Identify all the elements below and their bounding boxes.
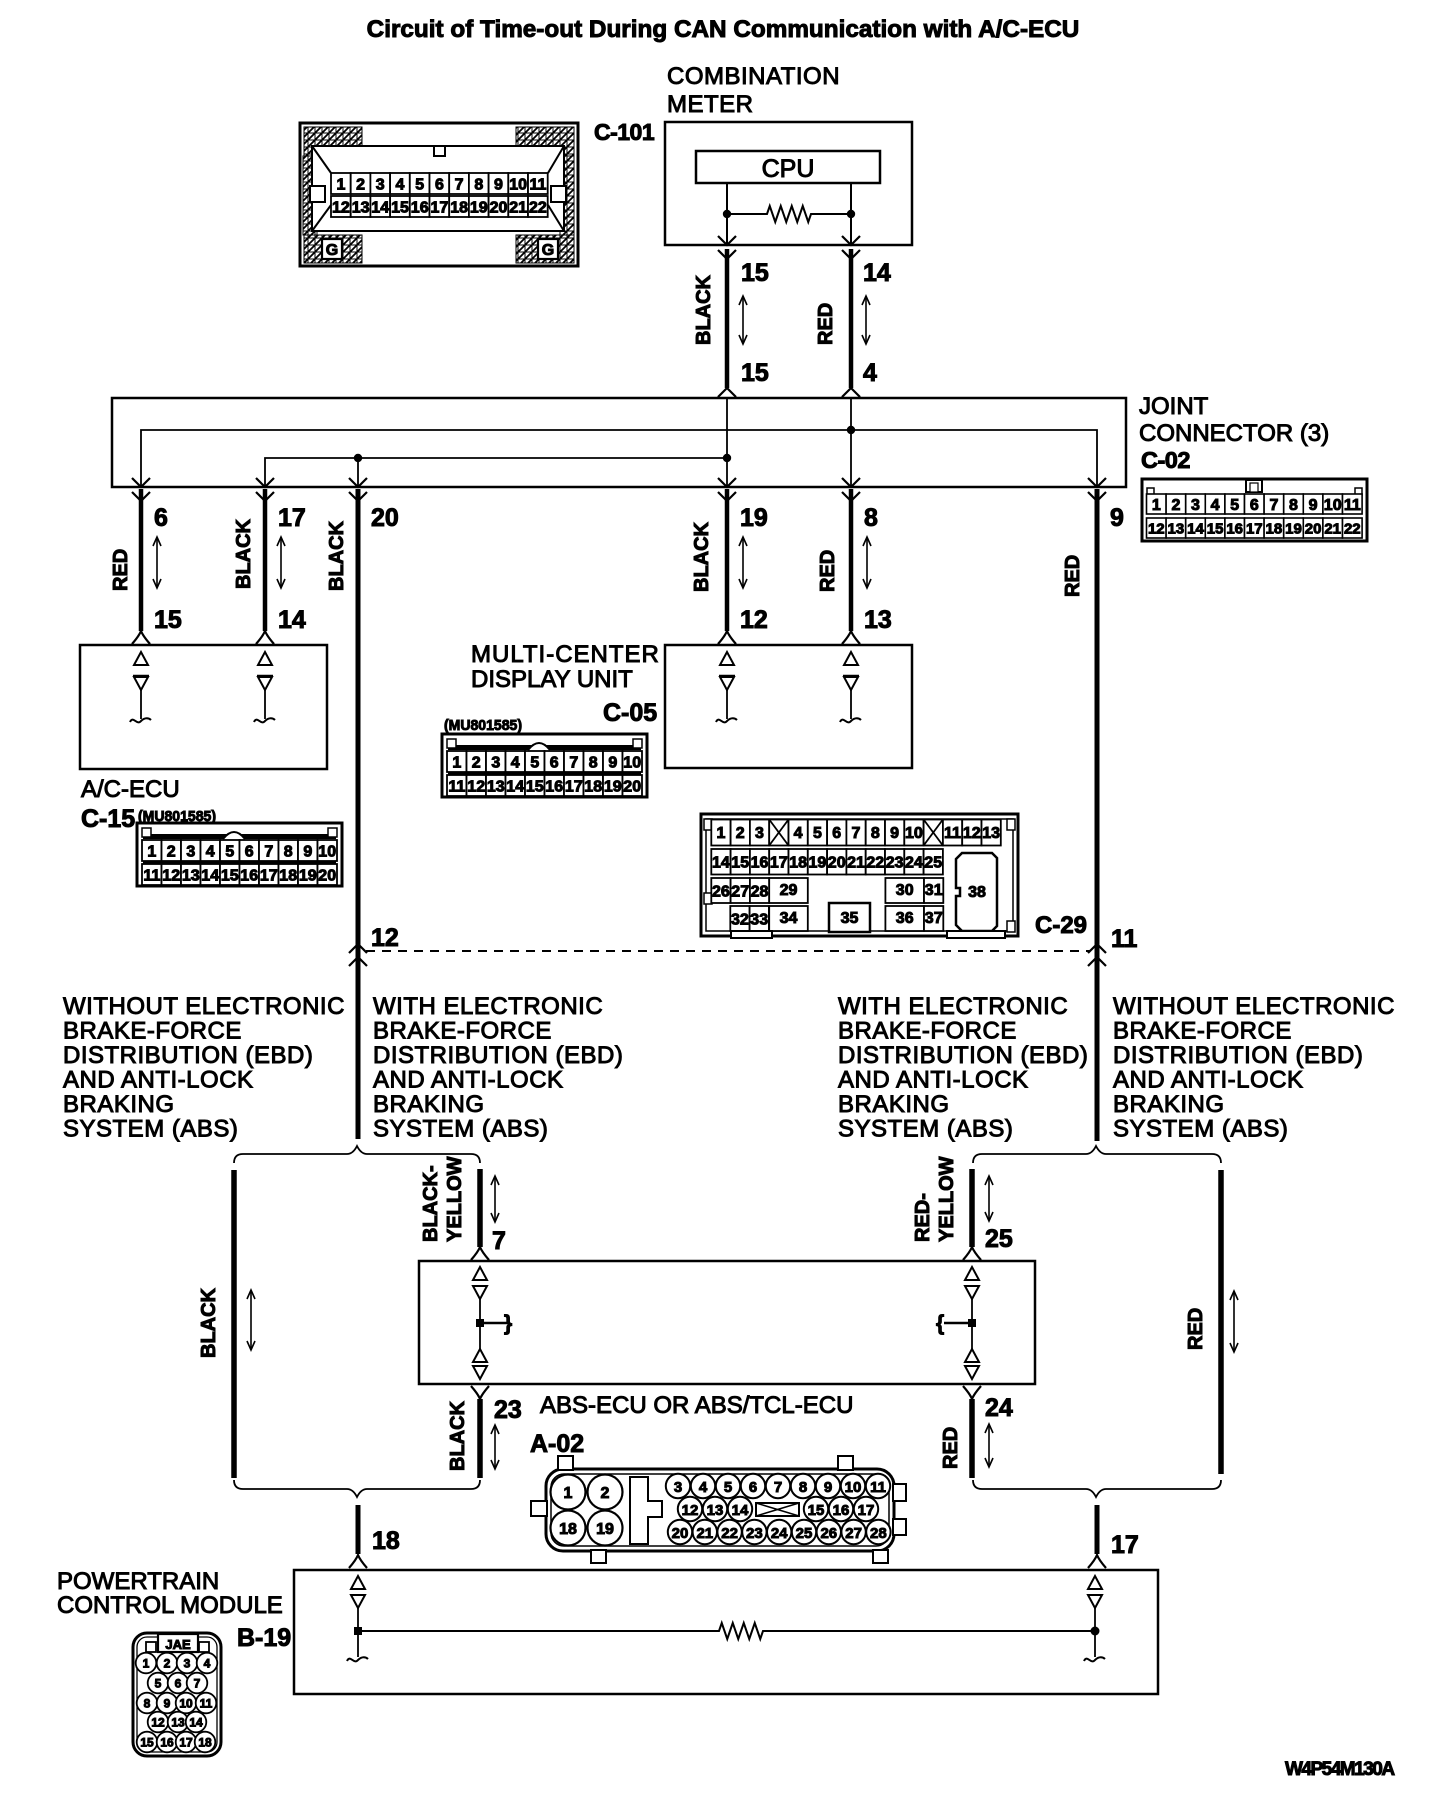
svg-text:14: 14 bbox=[732, 1502, 749, 1519]
PCM internal terminal pin 18 bbox=[347, 1576, 368, 1661]
svg-text:C-101: C-101 bbox=[594, 119, 655, 145]
svg-text:28: 28 bbox=[870, 1525, 887, 1542]
svg-text:14: 14 bbox=[1187, 520, 1204, 537]
direction arrow wire 17 bbox=[280, 539, 282, 586]
svg-text:17: 17 bbox=[179, 1736, 193, 1750]
svg-text:6: 6 bbox=[245, 843, 254, 860]
svg-text:1: 1 bbox=[564, 1485, 573, 1502]
terminating resistor R1 in combination meter bbox=[727, 206, 851, 222]
svg-text:24: 24 bbox=[905, 855, 923, 872]
PCM internal terminal pin 17 bbox=[1084, 1576, 1105, 1661]
svg-text:W4P54M130A: W4P54M130A bbox=[1285, 1759, 1395, 1780]
wire RED branch without EBD right bbox=[1218, 1170, 1224, 1474]
svg-text:2: 2 bbox=[356, 176, 365, 193]
svg-text:8: 8 bbox=[871, 825, 880, 842]
C-101 ground terminal G right bbox=[538, 239, 558, 259]
svg-text:9: 9 bbox=[303, 843, 312, 860]
variant note block 1 bbox=[63, 993, 345, 1143]
svg-text:12: 12 bbox=[682, 1502, 699, 1519]
variant note block 4 bbox=[1113, 993, 1395, 1143]
svg-text:10: 10 bbox=[318, 843, 336, 860]
svg-text:35: 35 bbox=[841, 910, 859, 927]
svg-text:12: 12 bbox=[151, 1716, 165, 1730]
svg-text:16: 16 bbox=[240, 867, 258, 884]
direction arrow wire 6 bbox=[156, 539, 158, 586]
svg-text:BRAKING: BRAKING bbox=[373, 1091, 485, 1118]
svg-text:25: 25 bbox=[985, 1225, 1013, 1253]
direction arrow wire 25 bbox=[988, 1178, 990, 1219]
svg-text:A-02: A-02 bbox=[530, 1430, 584, 1458]
svg-text:RED: RED bbox=[817, 550, 839, 592]
svg-text:33: 33 bbox=[750, 911, 768, 928]
svg-text:BLACK: BLACK bbox=[326, 520, 348, 591]
svg-text:14: 14 bbox=[506, 778, 524, 795]
svg-text:C-02: C-02 bbox=[1141, 447, 1190, 473]
svg-text:8: 8 bbox=[1289, 497, 1298, 514]
svg-text:5: 5 bbox=[415, 176, 424, 193]
svg-text:30: 30 bbox=[896, 882, 914, 899]
svg-text:10: 10 bbox=[623, 754, 641, 771]
svg-text:7: 7 bbox=[569, 754, 578, 771]
svg-text:BRAKE-FORCE: BRAKE-FORCE bbox=[373, 1018, 552, 1045]
svg-text:11: 11 bbox=[529, 176, 546, 193]
connector crossing at meter pin 14 bbox=[842, 236, 860, 245]
svg-text:9: 9 bbox=[494, 176, 503, 193]
svg-text:23: 23 bbox=[746, 1525, 763, 1542]
C-29 pin row 1 bbox=[711, 820, 730, 846]
svg-text:20: 20 bbox=[1305, 520, 1322, 537]
svg-text:4: 4 bbox=[204, 1657, 211, 1671]
svg-text:15: 15 bbox=[731, 855, 749, 872]
svg-text:13: 13 bbox=[352, 199, 370, 216]
svg-text:DISTRIBUTION (EBD): DISTRIBUTION (EBD) bbox=[838, 1042, 1088, 1069]
svg-text:1: 1 bbox=[1152, 497, 1161, 514]
joint internal bus upper bbox=[141, 430, 1097, 487]
svg-text:20: 20 bbox=[318, 867, 336, 884]
wire RED-YELLOW branch to ABS pin 25 bbox=[969, 1169, 975, 1247]
svg-text:26: 26 bbox=[820, 1525, 837, 1542]
connector crossing joint pin 9 bbox=[1088, 478, 1106, 487]
connector C-02 face view bbox=[1142, 479, 1367, 541]
multi-center display unit box bbox=[665, 645, 912, 768]
svg-text:20: 20 bbox=[490, 199, 508, 216]
svg-text:3: 3 bbox=[1191, 497, 1200, 514]
svg-text:17: 17 bbox=[1246, 520, 1263, 537]
wire end fork ABS pin 25 bbox=[963, 1247, 981, 1260]
svg-text:11: 11 bbox=[1111, 925, 1138, 953]
C-29 pin 38 cavity bbox=[956, 853, 997, 931]
svg-text:25: 25 bbox=[796, 1525, 813, 1542]
svg-text:3: 3 bbox=[674, 1479, 682, 1496]
C-101 pins 12-22 bbox=[331, 196, 351, 217]
svg-text:18: 18 bbox=[450, 199, 468, 216]
svg-text:23: 23 bbox=[886, 855, 904, 872]
connector crossing joint pin 17 bbox=[256, 478, 274, 487]
svg-text:11: 11 bbox=[870, 1479, 886, 1496]
svg-text:3: 3 bbox=[491, 754, 500, 771]
svg-text:JOINT: JOINT bbox=[1139, 393, 1209, 420]
joint internal bus lower bbox=[265, 458, 727, 487]
svg-text:RED: RED bbox=[110, 549, 132, 591]
svg-text:AND ANTI-LOCK: AND ANTI-LOCK bbox=[373, 1067, 564, 1094]
ABS-ECU box bbox=[419, 1261, 1035, 1384]
svg-text:CONNECTOR (3): CONNECTOR (3) bbox=[1139, 420, 1329, 447]
svg-text:38: 38 bbox=[968, 884, 986, 901]
svg-text:B-19: B-19 bbox=[237, 1624, 291, 1652]
svg-text:WITHOUT ELECTRONIC: WITHOUT ELECTRONIC bbox=[63, 993, 345, 1020]
wire end fork at pin 14 bbox=[256, 631, 274, 644]
svg-text:RED: RED bbox=[1062, 555, 1084, 597]
merge brace right to wire 17 bbox=[973, 1480, 1221, 1497]
svg-text:24: 24 bbox=[771, 1525, 788, 1542]
svg-text:6: 6 bbox=[550, 754, 559, 771]
svg-text:BLACK: BLACK bbox=[233, 518, 255, 589]
svg-text:9: 9 bbox=[824, 1479, 832, 1496]
svg-text:BLACK-: BLACK- bbox=[420, 1165, 442, 1242]
svg-text:6: 6 bbox=[832, 825, 841, 842]
svg-text:DISPLAY UNIT: DISPLAY UNIT bbox=[471, 666, 633, 693]
wire BLACK ABS 23 down bbox=[477, 1399, 483, 1478]
svg-text:20: 20 bbox=[828, 855, 846, 872]
connector B-19 face view bbox=[133, 1633, 221, 1756]
svg-text:27: 27 bbox=[731, 883, 749, 900]
svg-text:7: 7 bbox=[1269, 497, 1278, 514]
joint internal through wire 15-19 bbox=[726, 398, 728, 487]
svg-text:SYSTEM (ABS): SYSTEM (ABS) bbox=[373, 1116, 548, 1143]
svg-text:9: 9 bbox=[1110, 504, 1124, 532]
svg-text:10: 10 bbox=[1324, 497, 1342, 514]
svg-text:15: 15 bbox=[741, 359, 769, 387]
svg-text:29: 29 bbox=[780, 882, 798, 899]
joint internal stub wire 20 bbox=[357, 458, 359, 487]
svg-text:BLACK: BLACK bbox=[198, 1287, 220, 1358]
svg-text:2: 2 bbox=[472, 754, 481, 771]
wire RED joint 6 to pin 15 bbox=[139, 489, 144, 631]
svg-text:MULTI-CENTER: MULTI-CENTER bbox=[471, 641, 660, 668]
svg-text:19: 19 bbox=[299, 867, 317, 884]
svg-text:17: 17 bbox=[770, 855, 788, 872]
svg-text:22: 22 bbox=[1344, 520, 1361, 537]
svg-text:6: 6 bbox=[749, 1479, 757, 1496]
svg-text:8: 8 bbox=[864, 504, 878, 532]
svg-text:15: 15 bbox=[808, 1502, 825, 1519]
svg-text:14: 14 bbox=[278, 606, 306, 634]
svg-text:15: 15 bbox=[391, 199, 409, 216]
joint connector C-02 box bbox=[112, 398, 1126, 487]
svg-text:12: 12 bbox=[1148, 520, 1165, 537]
svg-text:2: 2 bbox=[164, 1657, 171, 1671]
svg-text:8: 8 bbox=[144, 1697, 151, 1711]
svg-text:METER: METER bbox=[667, 91, 754, 118]
C-101 pins 1-11 bbox=[331, 173, 351, 194]
svg-text:2: 2 bbox=[601, 1485, 610, 1502]
svg-text:17: 17 bbox=[260, 867, 278, 884]
svg-text:13: 13 bbox=[487, 778, 505, 795]
svg-text:11: 11 bbox=[1344, 497, 1361, 514]
svg-text:13: 13 bbox=[182, 867, 200, 884]
svg-text:12: 12 bbox=[467, 778, 485, 795]
wire BLACK joint 17 to pin 14 bbox=[263, 489, 268, 631]
svg-text:AND ANTI-LOCK: AND ANTI-LOCK bbox=[838, 1067, 1029, 1094]
svg-text:6: 6 bbox=[1250, 497, 1259, 514]
connector C-29 face view bbox=[701, 814, 1018, 938]
svg-text:13: 13 bbox=[1168, 520, 1185, 537]
svg-text:WITH ELECTRONIC: WITH ELECTRONIC bbox=[373, 993, 603, 1020]
svg-text:SYSTEM (ABS): SYSTEM (ABS) bbox=[1113, 1116, 1288, 1143]
combination meter box bbox=[665, 122, 912, 245]
svg-text:16: 16 bbox=[160, 1736, 174, 1750]
direction arrow wire 8 bbox=[866, 539, 868, 586]
svg-text:4: 4 bbox=[396, 176, 405, 193]
direction arrow wire 7 bbox=[494, 1178, 496, 1220]
svg-text:14: 14 bbox=[371, 199, 389, 216]
direction arrow wire 23 bbox=[494, 1427, 496, 1467]
connector crossing joint pin 8 bbox=[842, 478, 860, 487]
svg-text:2: 2 bbox=[736, 825, 745, 842]
svg-text:5: 5 bbox=[225, 843, 234, 860]
connector crossing at joint connector pin 15 bbox=[718, 388, 736, 397]
A-02 small pins row 3 bbox=[668, 1520, 692, 1544]
svg-text:G: G bbox=[542, 242, 554, 259]
svg-text:SYSTEM (ABS): SYSTEM (ABS) bbox=[838, 1116, 1013, 1143]
harness break chevrons wire 12 bbox=[349, 944, 367, 953]
svg-text:3: 3 bbox=[186, 843, 195, 860]
direction arrow wire 14 bbox=[865, 298, 867, 342]
wire BLACK joint 19 to pin 12 bbox=[725, 489, 730, 631]
connector C-05 face view bbox=[442, 734, 647, 797]
svg-text:28: 28 bbox=[751, 883, 769, 900]
svg-text:17: 17 bbox=[278, 504, 306, 532]
svg-text:24: 24 bbox=[985, 1394, 1013, 1422]
junction dot right of R1 bbox=[847, 210, 855, 218]
svg-text:BRAKING: BRAKING bbox=[838, 1091, 950, 1118]
wire end fork at pin 13 bbox=[842, 631, 860, 644]
svg-text:DISTRIBUTION (EBD): DISTRIBUTION (EBD) bbox=[1113, 1042, 1363, 1069]
A/C-ECU internal terminal pin 14 bbox=[258, 652, 272, 665]
wire to PCM pin 17 bbox=[1095, 1505, 1100, 1554]
svg-text:BLACK: BLACK bbox=[693, 274, 715, 345]
svg-text:11: 11 bbox=[200, 1697, 213, 1711]
A-02 small pins row 2 bbox=[678, 1497, 702, 1521]
svg-text:2: 2 bbox=[167, 843, 176, 860]
direction arrow wire 15 bbox=[742, 298, 744, 342]
C-02 pins 12-22 bbox=[1147, 518, 1167, 538]
ABS internal terminal pin 25/24 bbox=[936, 1267, 979, 1379]
svg-text:A/C-ECU: A/C-ECU bbox=[81, 776, 180, 803]
svg-text:CPU: CPU bbox=[762, 155, 815, 183]
svg-text:8: 8 bbox=[284, 843, 293, 860]
svg-text:7: 7 bbox=[852, 825, 861, 842]
svg-text:15: 15 bbox=[140, 1736, 154, 1750]
harness break chevrons wire 11 bbox=[1088, 944, 1106, 953]
svg-text:1: 1 bbox=[716, 825, 725, 842]
wire RED ABS 24 down bbox=[969, 1399, 975, 1478]
connector crossing at meter pin 15 bbox=[718, 236, 736, 245]
svg-text:RED: RED bbox=[940, 1427, 962, 1469]
svg-text:20: 20 bbox=[672, 1525, 689, 1542]
svg-text:18: 18 bbox=[1266, 520, 1283, 537]
svg-text:SYSTEM (ABS): SYSTEM (ABS) bbox=[63, 1116, 238, 1143]
A/C-ECU internal terminal pin 15 bbox=[134, 652, 148, 665]
wire BLACK joint 20 down to split bbox=[356, 489, 361, 1139]
split brace left wire 12 bbox=[234, 1146, 480, 1163]
svg-text:7: 7 bbox=[774, 1479, 782, 1496]
svg-text:34: 34 bbox=[780, 910, 798, 927]
svg-text:RED-: RED- bbox=[912, 1193, 934, 1242]
variant note block 2 bbox=[373, 993, 623, 1143]
svg-text:8: 8 bbox=[589, 754, 598, 771]
wire end fork at pin 15 bbox=[132, 631, 150, 644]
wire end fork ABS pin 7 bbox=[471, 1247, 489, 1260]
C-29 pin row 2 bbox=[711, 849, 730, 875]
svg-text:5: 5 bbox=[724, 1479, 732, 1496]
svg-text:20: 20 bbox=[371, 504, 399, 532]
svg-text:25: 25 bbox=[924, 855, 942, 872]
wire BLACK branch without EBD left bbox=[231, 1170, 237, 1478]
svg-text:12: 12 bbox=[332, 199, 350, 216]
svg-text:WITH ELECTRONIC: WITH ELECTRONIC bbox=[838, 993, 1068, 1020]
svg-text:16: 16 bbox=[751, 855, 769, 872]
display unit internal terminal pin 13 bbox=[844, 652, 858, 665]
ABS internal terminal pin 7/23 bbox=[473, 1267, 512, 1379]
svg-text:WITHOUT ELECTRONIC: WITHOUT ELECTRONIC bbox=[1113, 993, 1395, 1020]
svg-text:31: 31 bbox=[925, 882, 943, 899]
svg-text:15: 15 bbox=[221, 867, 239, 884]
wire end fork PCM pin 17 bbox=[1088, 1555, 1106, 1568]
svg-text:9: 9 bbox=[890, 825, 899, 842]
merge brace left to wire 18 bbox=[234, 1480, 480, 1497]
svg-text:BRAKE-FORCE: BRAKE-FORCE bbox=[63, 1018, 242, 1045]
svg-text:YELLOW: YELLOW bbox=[936, 1156, 958, 1242]
wire BLACK-YELLOW branch to ABS pin 7 bbox=[477, 1169, 483, 1247]
svg-text:37: 37 bbox=[925, 910, 943, 927]
wire start fork ABS pin 24 bbox=[963, 1386, 981, 1399]
svg-text:(MU801585): (MU801585) bbox=[444, 717, 522, 734]
svg-text:3: 3 bbox=[184, 1657, 191, 1671]
svg-text:C-15: C-15 bbox=[81, 805, 135, 833]
connector crossing joint pin 20 bbox=[349, 478, 367, 487]
wire start fork ABS pin 23 bbox=[471, 1386, 489, 1399]
svg-text:9: 9 bbox=[608, 754, 617, 771]
svg-text:COMBINATION: COMBINATION bbox=[667, 63, 840, 90]
svg-text:11: 11 bbox=[143, 867, 160, 884]
svg-text:7: 7 bbox=[194, 1677, 201, 1691]
junction dot bus lower at wire 19 bbox=[723, 454, 731, 462]
svg-text:ABS-ECU OR ABS/TCL-ECU: ABS-ECU OR ABS/TCL-ECU bbox=[540, 1392, 853, 1419]
svg-text:G: G bbox=[326, 242, 338, 259]
svg-text:BRAKE-FORCE: BRAKE-FORCE bbox=[1113, 1018, 1292, 1045]
svg-text:13: 13 bbox=[982, 825, 1000, 842]
svg-text:16: 16 bbox=[411, 199, 429, 216]
svg-text:23: 23 bbox=[494, 1396, 522, 1424]
direction arrow wire 24 bbox=[988, 1426, 990, 1465]
svg-text:C-29: C-29 bbox=[1035, 912, 1087, 939]
svg-text:12: 12 bbox=[162, 867, 180, 884]
svg-text:BRAKING: BRAKING bbox=[63, 1091, 175, 1118]
connector C-15 face view bbox=[137, 823, 342, 886]
svg-text:18: 18 bbox=[198, 1736, 212, 1750]
svg-text:21: 21 bbox=[509, 199, 527, 216]
connector A-02 face view bbox=[531, 1456, 906, 1563]
svg-text:6: 6 bbox=[175, 1677, 182, 1691]
svg-text:BLACK: BLACK bbox=[691, 521, 713, 592]
svg-text:15: 15 bbox=[154, 606, 182, 634]
svg-text:RED: RED bbox=[1185, 1308, 1207, 1350]
svg-text:16: 16 bbox=[833, 1502, 850, 1519]
svg-text:YELLOW: YELLOW bbox=[444, 1156, 466, 1242]
svg-text:}: } bbox=[504, 1312, 512, 1335]
svg-text:8: 8 bbox=[799, 1479, 807, 1496]
svg-text:14: 14 bbox=[201, 867, 219, 884]
svg-text:17: 17 bbox=[431, 199, 449, 216]
svg-text:14: 14 bbox=[712, 855, 730, 872]
CPU box U1 bbox=[696, 151, 880, 183]
svg-text:5: 5 bbox=[813, 825, 822, 842]
svg-text:14: 14 bbox=[189, 1716, 203, 1730]
junction dot left of R1 bbox=[723, 210, 731, 218]
junction dot bus lower at wire 20 bbox=[354, 454, 362, 462]
svg-text:13: 13 bbox=[171, 1716, 185, 1730]
svg-text:26: 26 bbox=[712, 883, 730, 900]
svg-text:18: 18 bbox=[559, 1521, 577, 1538]
svg-text:17: 17 bbox=[858, 1502, 875, 1519]
svg-text:BRAKE-FORCE: BRAKE-FORCE bbox=[838, 1018, 1017, 1045]
svg-text:5: 5 bbox=[1230, 497, 1239, 514]
svg-text:18: 18 bbox=[789, 855, 807, 872]
svg-text:20: 20 bbox=[623, 778, 641, 795]
svg-text:10: 10 bbox=[845, 1479, 862, 1496]
svg-text:11: 11 bbox=[448, 778, 465, 795]
A/C-ECU box bbox=[80, 645, 327, 769]
svg-text:13: 13 bbox=[864, 606, 892, 634]
svg-text:DISTRIBUTION (EBD): DISTRIBUTION (EBD) bbox=[373, 1042, 623, 1069]
svg-text:4: 4 bbox=[511, 754, 520, 771]
svg-text:4: 4 bbox=[206, 843, 215, 860]
svg-text:4: 4 bbox=[1211, 497, 1220, 514]
svg-text:18: 18 bbox=[372, 1527, 400, 1555]
split brace right wire 11 bbox=[973, 1146, 1221, 1163]
svg-text:7: 7 bbox=[455, 176, 464, 193]
svg-text:36: 36 bbox=[896, 910, 914, 927]
display unit internal terminal pin 12 bbox=[720, 652, 734, 665]
svg-text:15: 15 bbox=[1207, 520, 1224, 537]
svg-text:1: 1 bbox=[336, 176, 345, 193]
svg-text:22: 22 bbox=[866, 855, 884, 872]
svg-text:DISTRIBUTION (EBD): DISTRIBUTION (EBD) bbox=[63, 1042, 313, 1069]
wire BLACK meter 15 to joint 15 bbox=[725, 249, 730, 388]
connector crossing joint pin 6 bbox=[132, 478, 150, 487]
svg-text:10: 10 bbox=[905, 825, 923, 842]
svg-text:9: 9 bbox=[164, 1697, 171, 1711]
svg-text:17: 17 bbox=[565, 778, 583, 795]
svg-text:3: 3 bbox=[376, 176, 385, 193]
svg-text:1: 1 bbox=[143, 1657, 150, 1671]
svg-text:10: 10 bbox=[509, 176, 527, 193]
direction arrow branch left bbox=[250, 1292, 252, 1348]
C-29 pin row 3 bbox=[711, 878, 730, 903]
svg-text:21: 21 bbox=[1324, 520, 1341, 537]
svg-text:BRAKING: BRAKING bbox=[1113, 1091, 1225, 1118]
svg-text:7: 7 bbox=[264, 843, 273, 860]
svg-text:27: 27 bbox=[845, 1525, 862, 1542]
svg-text:21: 21 bbox=[696, 1525, 713, 1542]
svg-text:2: 2 bbox=[1171, 497, 1180, 514]
joint internal through wire 4-8 bbox=[850, 398, 852, 487]
svg-text:17: 17 bbox=[1111, 1531, 1139, 1559]
svg-text:15: 15 bbox=[526, 778, 544, 795]
svg-text:CONTROL MODULE: CONTROL MODULE bbox=[57, 1592, 283, 1619]
svg-text:22: 22 bbox=[721, 1525, 738, 1542]
